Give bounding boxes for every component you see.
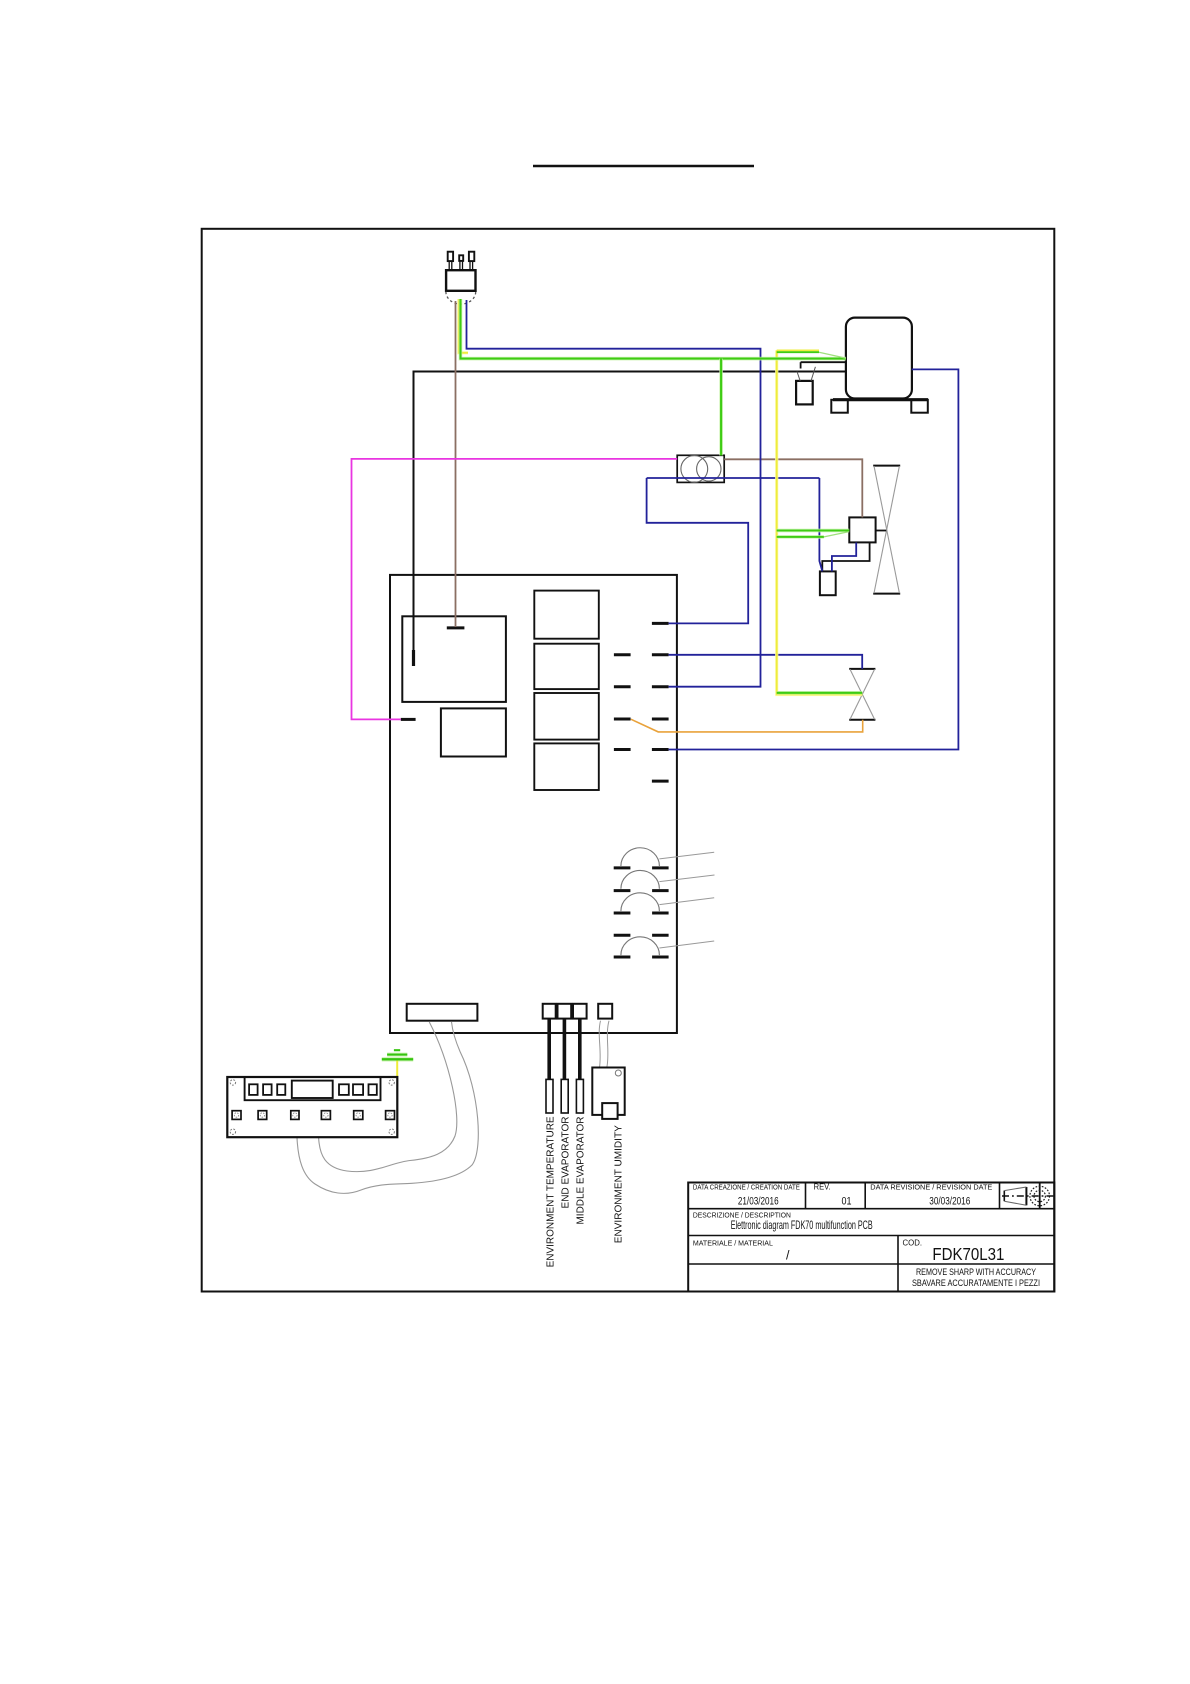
wire green earth fan relay (777, 531, 850, 537)
panel cable inner (319, 1022, 457, 1172)
PCB power module (402, 616, 506, 702)
inductor L2 (614, 870, 715, 890)
machine enclosure edge (414, 372, 846, 667)
svg-text:COD.: COD. (903, 1239, 923, 1248)
compressor foot right (911, 400, 928, 413)
border frame (202, 229, 1055, 1292)
pin 5 left (614, 748, 631, 751)
projection symbol (1002, 1183, 1054, 1209)
humidity sensor B1 (592, 1068, 624, 1119)
sensor lead 2 (563, 1019, 567, 1080)
title block description label (693, 1211, 791, 1220)
terminal magenta (401, 718, 416, 721)
wire green earth pair top (777, 352, 846, 358)
svg-text:01: 01 (842, 1195, 852, 1207)
title block note line 1 (916, 1267, 1036, 1277)
compressor base (833, 398, 928, 401)
svg-text:REV.: REV. (814, 1182, 831, 1191)
title underline (533, 165, 754, 168)
title block cod label (903, 1239, 923, 1248)
svg-text:FDK70L31: FDK70L31 (932, 1244, 1004, 1264)
title block creation date (738, 1195, 779, 1207)
pin 2 right (652, 653, 669, 656)
relay RL1 (534, 591, 599, 639)
transformer T1 (677, 455, 724, 482)
svg-text:/: / (786, 1249, 790, 1263)
svg-text:21/03/2016: 21/03/2016 (738, 1195, 779, 1207)
PCB main board (390, 575, 677, 1033)
title block material value (786, 1249, 790, 1263)
ground symbol earth (382, 1050, 413, 1077)
humidity sensor cable (599, 1021, 609, 1068)
compressor foot left (831, 400, 848, 413)
compressor M1 (846, 318, 912, 399)
wire brown transformer to fan relay (724, 459, 862, 517)
svg-text:SBAVARE ACCURATAMENTE I PEZZI: SBAVARE ACCURATAMENTE I PEZZI (912, 1278, 1040, 1288)
relay RL3 (534, 693, 599, 740)
inductor L4 (614, 937, 715, 957)
title block code (932, 1244, 1004, 1264)
title block revision date (929, 1195, 970, 1207)
svg-text:MIDDLE EVAPORATOR: MIDDLE EVAPORATOR (576, 1117, 587, 1225)
control panel display unit (227, 1077, 397, 1137)
svg-text:DATA CREAZIONE / CREATION DATE: DATA CREAZIONE / CREATION DATE (693, 1182, 800, 1191)
svg-text:MATERIALE / MATERIAL: MATERIALE / MATERIAL (693, 1239, 773, 1248)
wire blue valve feed (669, 655, 863, 669)
title block description (731, 1218, 873, 1232)
compressor run capacitor C1 (796, 362, 846, 404)
inductor L3 (614, 893, 715, 913)
wire orange (631, 719, 863, 732)
spare pins row (614, 934, 669, 937)
svg-text:ENVIRONMENT UMIDITY: ENVIRONMENT UMIDITY (613, 1125, 624, 1243)
connector J3 (558, 1004, 572, 1019)
wire yellow earth plug (459, 299, 468, 353)
relay RL4 (534, 743, 599, 790)
solenoid valve Y1 (849, 669, 875, 720)
wire green earth main (461, 299, 846, 456)
PCB aux module (441, 708, 506, 756)
wire relay to box (822, 543, 869, 572)
pin 2 left (614, 653, 631, 656)
sensor probe 1 (546, 1079, 553, 1113)
label environment temperature (546, 1116, 557, 1267)
sensor lead 3 (578, 1019, 582, 1080)
mains plug P1 (446, 252, 476, 304)
pin 3 left (614, 685, 631, 688)
terminal brown (447, 626, 465, 629)
title block note line 2 (912, 1278, 1040, 1288)
pin 1 right (652, 622, 669, 625)
title block rev value (842, 1195, 852, 1207)
inductor L1 (614, 848, 715, 868)
svg-text:ENVIRONMENT TEMPERATURE: ENVIRONMENT TEMPERATURE (546, 1116, 557, 1267)
wire yellow earth main (777, 350, 863, 694)
title block revision date label (870, 1182, 992, 1191)
title block (688, 1183, 1054, 1292)
fan relay box K1 (849, 517, 886, 542)
sensor probe 2 (561, 1079, 568, 1113)
connector J5 (598, 1004, 612, 1019)
svg-text:DATA REVISIONE / REVISION DATE: DATA REVISIONE / REVISION DATE (870, 1182, 992, 1191)
wire blue fan relay to box (832, 543, 856, 572)
relay RL2 (534, 644, 599, 689)
wire blue transformer loop (647, 478, 822, 623)
pin 3 right (652, 685, 669, 688)
svg-text:30/03/2016: 30/03/2016 (929, 1195, 970, 1207)
svg-text:Elettronic diagram FDK70 multi: Elettronic diagram FDK70 multifunction P… (731, 1218, 873, 1232)
title block rev label (814, 1182, 831, 1191)
PCB connector strip J1 (407, 1004, 478, 1021)
wire green earth valve (777, 691, 863, 695)
label middle evaporator (576, 1117, 587, 1225)
connector J2 (543, 1004, 556, 1019)
wire blue neutral (467, 300, 761, 687)
pin 4 left (614, 718, 631, 721)
wire brown phase (455, 301, 457, 627)
pin 4 right (652, 718, 669, 721)
pin 6 right (652, 780, 669, 783)
panel cable outer (297, 1022, 478, 1193)
svg-text:END EVAPORATOR: END EVAPORATOR (560, 1117, 571, 1209)
wire magenta (352, 459, 678, 720)
auxiliary box X1 (820, 571, 836, 595)
connector J4 (573, 1004, 587, 1019)
sensor lead 1 (547, 1019, 551, 1080)
pin 5 right (652, 748, 669, 751)
label environment umidity (613, 1125, 624, 1243)
condenser fan motor M2 (873, 466, 900, 594)
label end evaporator (560, 1117, 571, 1209)
title block material label (693, 1239, 773, 1248)
wire blue compressor return (669, 369, 959, 749)
svg-text:REMOVE SHARP WITH ACCURACY: REMOVE SHARP WITH ACCURACY (916, 1267, 1036, 1277)
sensor probe 3 (576, 1079, 583, 1113)
title block creation date label (693, 1182, 800, 1191)
